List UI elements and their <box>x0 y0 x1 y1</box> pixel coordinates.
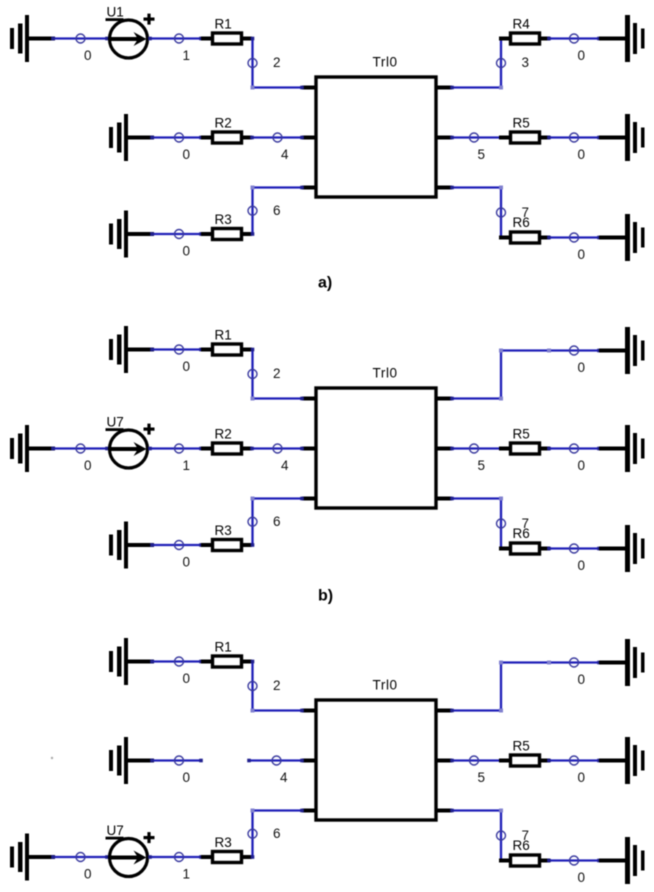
svg-text:0: 0 <box>84 867 92 882</box>
svg-text:R3: R3 <box>215 835 232 850</box>
svg-text:a): a) <box>318 275 332 292</box>
svg-text:6: 6 <box>273 203 281 218</box>
svg-text:0: 0 <box>578 870 586 885</box>
svg-text:5: 5 <box>478 458 486 473</box>
svg-text:U1: U1 <box>107 5 124 20</box>
svg-text:Trl0: Trl0 <box>373 366 398 381</box>
svg-text:R6: R6 <box>513 526 530 541</box>
svg-text:0: 0 <box>84 48 92 63</box>
svg-text:5: 5 <box>478 770 486 785</box>
svg-text:0: 0 <box>578 672 586 687</box>
svg-text:R6: R6 <box>513 838 530 853</box>
svg-text:U7: U7 <box>107 823 124 838</box>
svg-text:R6: R6 <box>513 215 530 230</box>
svg-text:0: 0 <box>578 147 586 162</box>
svg-text:R4: R4 <box>513 17 531 32</box>
svg-text:R2: R2 <box>215 427 232 442</box>
svg-text:0: 0 <box>183 770 191 785</box>
svg-text:1: 1 <box>183 458 191 473</box>
svg-text:1: 1 <box>183 48 191 63</box>
svg-text:Trl0: Trl0 <box>373 55 398 70</box>
svg-text:4: 4 <box>280 770 288 785</box>
svg-text:0: 0 <box>578 770 586 785</box>
svg-text:R5: R5 <box>513 116 530 131</box>
svg-text:0: 0 <box>84 458 92 473</box>
svg-text:0: 0 <box>183 671 191 686</box>
svg-text:R2: R2 <box>215 116 232 131</box>
svg-text:0: 0 <box>183 359 191 374</box>
svg-text:4: 4 <box>281 147 289 162</box>
svg-text:R5: R5 <box>513 739 530 754</box>
svg-text:0: 0 <box>578 558 586 573</box>
svg-text:5: 5 <box>478 147 486 162</box>
svg-text:0: 0 <box>578 247 586 262</box>
svg-text:0: 0 <box>578 360 586 375</box>
svg-text:R1: R1 <box>215 17 232 32</box>
svg-text:b): b) <box>318 588 333 605</box>
svg-text:R1: R1 <box>215 640 232 655</box>
svg-text:4: 4 <box>281 458 289 473</box>
svg-text:R3: R3 <box>215 523 232 538</box>
svg-text:0: 0 <box>183 244 191 259</box>
svg-text:U7: U7 <box>107 415 124 430</box>
svg-text:2: 2 <box>273 366 281 381</box>
svg-text:0: 0 <box>183 147 191 162</box>
svg-text:0: 0 <box>578 48 586 63</box>
svg-text:6: 6 <box>273 514 281 529</box>
svg-text:R5: R5 <box>513 427 530 442</box>
svg-text:0: 0 <box>183 555 191 570</box>
svg-text:Trl0: Trl0 <box>373 678 398 693</box>
svg-text:6: 6 <box>273 826 281 841</box>
svg-text:R3: R3 <box>215 212 232 227</box>
svg-text:3: 3 <box>522 55 530 70</box>
svg-text:2: 2 <box>273 55 281 70</box>
svg-text:1: 1 <box>183 867 191 882</box>
svg-text:0: 0 <box>578 458 586 473</box>
svg-text:2: 2 <box>273 678 281 693</box>
svg-text:R1: R1 <box>215 328 232 343</box>
